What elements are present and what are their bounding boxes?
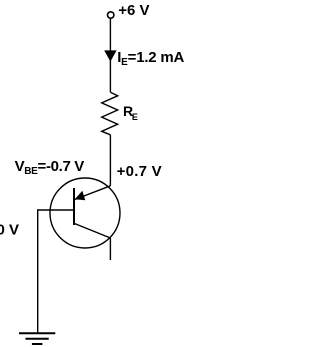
transistor Q1 emitter arrowhead (PNP, into base) <box>75 191 86 201</box>
resistor RE <box>102 92 118 135</box>
transistor Q1 base bar <box>73 188 75 225</box>
svg-text:+6 V: +6 V <box>118 2 149 19</box>
wire: collector stub down <box>109 238 111 260</box>
transistor Q1 emitter line <box>75 186 111 200</box>
transistor Q1 collector line <box>75 224 111 239</box>
+6V supply terminal <box>108 12 114 18</box>
ground symbol <box>19 333 55 344</box>
current arrow IE <box>104 50 116 61</box>
svg-text:+0.7 V: +0.7 V <box>117 163 162 180</box>
wire: terminal to resistor RE <box>109 19 111 93</box>
svg-text:0 V: 0 V <box>0 221 19 238</box>
svg-text:IE=1.2 mA: IE=1.2 mA <box>117 49 184 68</box>
svg-text:VBE=-0.7 V: VBE=-0.7 V <box>15 158 85 177</box>
wire: base down to ground <box>37 209 39 333</box>
wire: resistor to emitter <box>109 135 111 186</box>
wire: base horizontal <box>38 209 74 211</box>
transistor Q1 (PNP) circle <box>50 178 120 248</box>
svg-text:RE: RE <box>123 103 138 122</box>
